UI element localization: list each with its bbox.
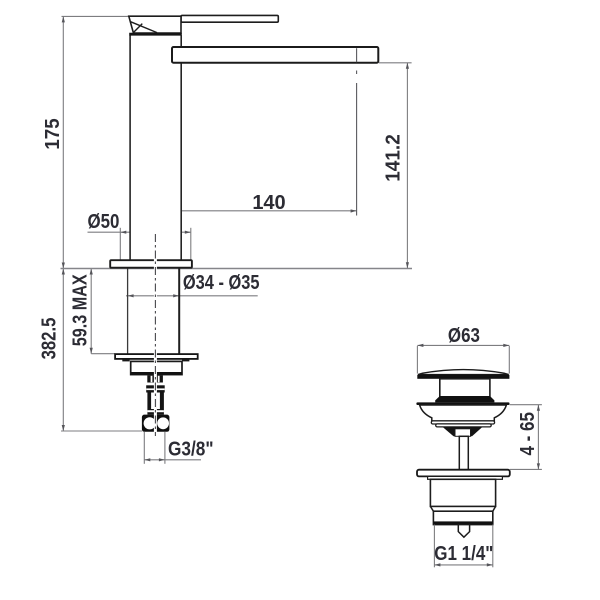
drain cap dome (418, 370, 509, 375)
svg-text:141.2: 141.2 (382, 134, 405, 182)
svg-text:382.5: 382.5 (37, 318, 60, 360)
washer tabs (122, 359, 129, 362)
dimension 4-65 (510, 405, 542, 470)
svg-text:G1 1/4": G1 1/4" (434, 542, 493, 565)
drain cap brim (417, 375, 509, 379)
svg-text:Ø34 - Ø35: Ø34 - Ø35 (183, 271, 260, 294)
drain body taper (430, 506, 495, 511)
base plate (110, 260, 192, 268)
spout bottom extension line (379, 62, 412, 64)
faucet center axis dash-dot (154, 234, 157, 436)
svg-text:140: 140 (252, 192, 285, 214)
dimension G3/8 (144, 432, 201, 464)
extension line washer top (91, 353, 115, 355)
countertop deck line (61, 268, 413, 270)
dimension 141.2 line (406, 63, 409, 268)
dimension 59.3 MAX line (90, 269, 93, 354)
extension line top (handle top level) (62, 15, 131, 17)
drain bell lower band (436, 424, 492, 427)
drain cone (443, 427, 483, 436)
lever handle bar (181, 15, 278, 22)
svg-text:4 - 65: 4 - 65 (516, 412, 539, 455)
cartridge collar thick line (129, 33, 182, 36)
dimension O63 (417, 344, 509, 374)
drain bell body (420, 405, 507, 421)
drain drip point (458, 525, 469, 538)
dimension 175 line (62, 16, 65, 268)
washer under counter (115, 354, 198, 359)
dimension G1 1/4 (434, 525, 492, 568)
svg-text:175: 175 (42, 118, 65, 150)
dimension 382.5 line (62, 269, 65, 432)
mounting nut (131, 361, 182, 374)
drain cap skirt flare (435, 396, 494, 402)
hose end fittings box (142, 415, 170, 432)
hose crimp block (146, 385, 165, 392)
drain seal washer (416, 402, 509, 405)
dimension O34-O35 (126, 294, 258, 297)
drain flange (417, 470, 510, 477)
svg-text:Ø63: Ø63 (448, 324, 480, 347)
faucet body (130, 35, 181, 260)
drain tailpiece (433, 511, 492, 524)
dimension 140 line (155, 209, 356, 233)
svg-text:G3/8": G3/8" (168, 437, 214, 459)
drain stem (459, 436, 468, 469)
drain cap skirt (440, 379, 490, 398)
dimension O50 (88, 228, 191, 260)
drain flange lip (428, 476, 503, 479)
drain bell bottom band (431, 421, 494, 424)
extension line bottom of hoses (61, 430, 142, 432)
spout (172, 47, 378, 63)
hose ribbed section (147, 393, 164, 415)
lever handle base (129, 16, 181, 33)
svg-text:Ø50: Ø50 (87, 210, 119, 233)
aerator axis inside spout (356, 48, 358, 62)
aerator axis dash-dot (356, 71, 358, 75)
drain upper body (430, 479, 495, 506)
under-counter shank (128, 269, 180, 355)
hose collar block (147, 376, 163, 383)
svg-text:59.3 MAX: 59.3 MAX (69, 274, 91, 346)
